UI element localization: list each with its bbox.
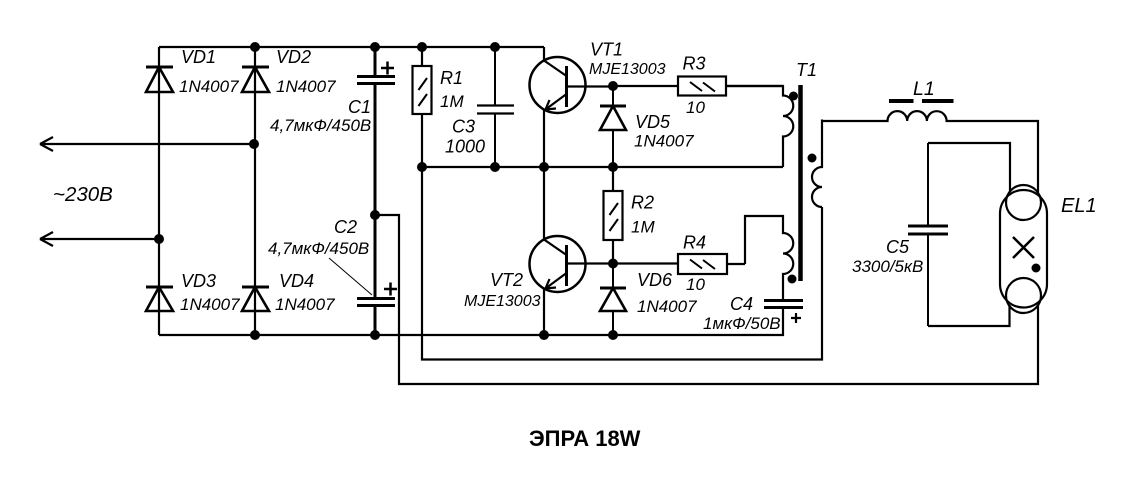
node top rail / R1 (417, 42, 427, 52)
wire C1-C2 midpoint to lamp bottom (375, 215, 1038, 384)
transistor VT1 (530, 47, 614, 167)
svg-text:C3: C3 (452, 117, 475, 137)
capacitor C2 (357, 215, 395, 335)
svg-text:C4: C4 (730, 294, 753, 314)
wire lamp inner loop top (928, 143, 1010, 192)
diode VD3 (146, 287, 173, 311)
resistor R1 (413, 47, 432, 167)
node mid rail / C3 (490, 162, 500, 172)
svg-text:4,7мкФ/450В: 4,7мкФ/450В (270, 116, 371, 135)
svg-text:VD5: VD5 (635, 112, 671, 132)
transistor VT2 (530, 167, 614, 335)
node top rail / C1 (370, 42, 380, 52)
node mid rail / R2 (608, 162, 618, 172)
svg-text:VD3: VD3 (181, 271, 216, 291)
wire left bridge rail (158, 47, 160, 335)
svg-text:MJE13003: MJE13003 (464, 293, 541, 310)
node bottom rail / C2 (370, 330, 380, 340)
transformer T1 core (798, 85, 803, 281)
svg-text:10: 10 (686, 275, 705, 294)
capacitor C1 plus sign (381, 62, 394, 75)
capacitor C2 plus sign (384, 283, 397, 296)
capacitor C2 leader line (329, 258, 372, 295)
capacitor C4 (764, 301, 803, 308)
resistor R2 (604, 167, 623, 264)
diode VD6 (600, 264, 626, 336)
svg-text:1N4007: 1N4007 (179, 77, 239, 96)
diode VD5 (600, 86, 626, 167)
svg-text:VD4: VD4 (279, 271, 314, 291)
svg-text:1000: 1000 (445, 137, 485, 157)
node VT1 base (608, 81, 618, 91)
wire bottom rail (159, 308, 783, 335)
svg-text:1M: 1M (631, 218, 655, 237)
svg-text:1N4007: 1N4007 (180, 295, 240, 314)
capacitor C3 (477, 47, 514, 167)
diode VD4 (242, 287, 269, 311)
svg-text:VD1: VD1 (181, 47, 216, 67)
svg-text:ЭПРА 18W: ЭПРА 18W (529, 426, 641, 451)
resistor R4 (613, 254, 745, 274)
svg-text:R2: R2 (631, 193, 654, 213)
wire mid rail (422, 166, 783, 168)
lamp EL1 top filament (1006, 185, 1041, 220)
svg-text:1мкФ/50В: 1мкФ/50В (703, 314, 781, 333)
svg-text:R4: R4 (683, 233, 706, 253)
node mid rail / VT emitter-collector (539, 162, 549, 172)
node C1-C2 midpoint (370, 210, 380, 220)
diode VD2 (242, 67, 269, 92)
node AC bottom (154, 234, 164, 244)
transformer T1 primary top winding (726, 86, 793, 167)
node mid rail / R1 (417, 162, 427, 172)
svg-text:~230В: ~230В (53, 183, 113, 206)
svg-text:VD2: VD2 (276, 47, 311, 67)
node bottom rail / VD6 (608, 330, 618, 340)
svg-text:1N4007: 1N4007 (637, 297, 697, 316)
capacitor C1 (357, 47, 395, 215)
wire AC input arrow top (40, 137, 254, 151)
wire half-bridge mid to T1 secondary bottom (422, 167, 822, 360)
node top rail / C3 (490, 42, 500, 52)
transformer T1 primary bottom winding (745, 216, 793, 300)
svg-text:VT2: VT2 (490, 270, 523, 290)
svg-text:1N4007: 1N4007 (276, 77, 336, 96)
svg-text:C5: C5 (886, 237, 910, 257)
svg-text:1N4007: 1N4007 (634, 132, 694, 151)
resistor R3 (613, 77, 783, 96)
svg-text:MJE13003: MJE13003 (589, 61, 666, 78)
wire lamp inner loop bottom (928, 305, 1010, 326)
transformer T1 bottom winding dot (788, 275, 797, 284)
wire right bridge rail (254, 47, 256, 335)
svg-text:C2: C2 (334, 217, 357, 237)
svg-text:VT1: VT1 (590, 40, 623, 60)
svg-text:1M: 1M (440, 92, 464, 111)
transformer T1 top winding dot (789, 92, 798, 101)
svg-text:3300/5кВ: 3300/5кВ (852, 257, 923, 276)
wire top rail (159, 46, 544, 48)
node bottom rail / VD4 (250, 330, 260, 340)
transformer T1 secondary winding (812, 120, 822, 208)
svg-text:10: 10 (686, 98, 705, 117)
node top rail / right rail (250, 42, 260, 52)
svg-text:EL1: EL1 (1061, 195, 1097, 217)
lamp EL1 tube (1000, 190, 1047, 308)
inductor L1 core bars (889, 99, 954, 103)
node VT2 base (608, 259, 618, 269)
svg-text:L1: L1 (913, 78, 935, 100)
svg-text:R1: R1 (440, 68, 463, 88)
svg-text:C1: C1 (348, 97, 371, 117)
wire AC input arrow bottom (40, 232, 159, 246)
lamp EL1 bottom filament (1006, 278, 1041, 313)
node AC top (249, 139, 259, 149)
svg-text:VD6: VD6 (637, 270, 673, 290)
capacitor C4 plus sign (791, 313, 801, 323)
transformer T1 secondary dot (808, 154, 817, 163)
svg-text:4,7мкФ/450В: 4,7мкФ/450В (268, 239, 369, 258)
lamp EL1 dot (1032, 264, 1041, 273)
node bottom rail / VT2 emitter (539, 330, 549, 340)
diode VD1 (146, 67, 173, 92)
svg-text:T1: T1 (796, 60, 817, 80)
capacitor C5 (908, 143, 948, 326)
lamp EL1 X mark (1013, 237, 1034, 258)
svg-text:1N4007: 1N4007 (275, 295, 335, 314)
inductor L1 (822, 111, 1038, 192)
svg-text:R3: R3 (683, 54, 706, 74)
